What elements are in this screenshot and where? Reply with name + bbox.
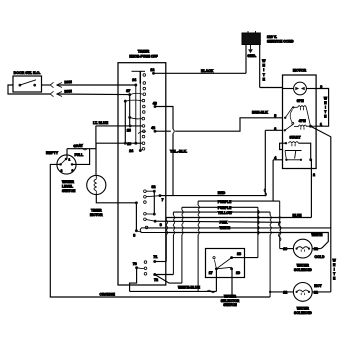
wire 17 riser down to white-blue [215, 269, 217, 292]
svg-text:SWITCH: SWITCH [223, 303, 237, 307]
svg-text:72: 72 [154, 278, 158, 282]
connector squiggle cold drop b [278, 233, 281, 241]
svg-text:I: I [334, 267, 335, 271]
connector squiggle motor3 [264, 188, 267, 196]
selector contact circle [213, 257, 215, 259]
connector chevron lower [50, 91, 53, 96]
timer box outline [118, 63, 166, 285]
svg-text:RED: RED [218, 191, 226, 195]
node hot lead junction [269, 291, 271, 293]
label GRAY [73, 144, 82, 147]
contact circle row f [142, 135, 145, 138]
timer mid bus 32 [153, 191, 155, 214]
node junction riser gray [124, 142, 127, 145]
svg-text:17: 17 [209, 271, 213, 275]
svg-text:71: 71 [153, 255, 157, 259]
start bracket outboard loop [280, 143, 286, 149]
blade interior b [125, 99, 142, 102]
contact circle bot c [144, 273, 147, 276]
node pink right junction [279, 221, 281, 223]
water level switch circle [57, 155, 76, 174]
svg-text:TIMER: TIMER [91, 208, 102, 212]
timer bus 26 vertical [135, 85, 137, 143]
wire BRN upper to timer [57, 84, 136, 86]
label LT. BLUE [93, 121, 111, 124]
wire empty terminal 2 to orange [50, 164, 270, 297]
contact circle row g [142, 142, 145, 145]
node mid bus bottom dot [153, 213, 156, 216]
svg-text:70: 70 [133, 262, 137, 266]
arrow upper BRN wire [57, 83, 62, 88]
wire 18 to purple2 riser [232, 257, 258, 259]
wire door switch left loop [8, 85, 51, 94]
ground stub wire [250, 45, 252, 50]
centrifugal blade [295, 151, 296, 159]
svg-text:9: 9 [160, 223, 162, 227]
wire pink dot to contact [146, 219, 155, 221]
terminal 8 dot [135, 229, 138, 232]
svg-text:6PM: 6PM [297, 99, 304, 103]
svg-text:YELLOW: YELLOW [218, 211, 233, 215]
wire junction to terminal 1 [307, 125, 317, 127]
svg-text:START: START [289, 135, 301, 139]
label BRN upper [64, 81, 71, 84]
service cord plug 120V [242, 33, 260, 45]
label FULL [74, 153, 83, 156]
door switch blade [20, 80, 36, 85]
svg-text:WATER: WATER [297, 263, 310, 267]
node LT BLUE junction dot [129, 124, 132, 127]
wire BLACK to timer 12 [154, 72, 247, 74]
connector squiggle gray [79, 147, 87, 150]
svg-text:22: 22 [283, 291, 287, 295]
terminal 71 dot [153, 260, 156, 263]
svg-text:GND.: GND. [247, 54, 256, 58]
wire BLUE [166, 217, 311, 219]
svg-text:37: 37 [126, 89, 130, 93]
node start coil left dot [285, 142, 287, 144]
svg-text:EMPTY: EMPTY [46, 151, 59, 155]
svg-text:SOLENOID: SOLENOID [294, 268, 312, 272]
label 21 cold [314, 247, 319, 250]
svg-text:W: W [333, 259, 337, 263]
contact circle row c [142, 99, 145, 102]
svg-text:43: 43 [153, 102, 157, 106]
wire hot 22 lead [270, 291, 293, 293]
wire full terminal 3 [72, 149, 90, 165]
label PURPLE 2 [217, 206, 230, 209]
terminal 4 dot [285, 159, 287, 161]
svg-text:WATER: WATER [62, 180, 75, 184]
wire motor terminal 2 down [310, 160, 312, 218]
svg-text:2: 2 [313, 173, 315, 177]
wire 70 down and left to white-blue [130, 268, 137, 292]
svg-text:T: T [333, 272, 335, 276]
svg-text:WHITE-BLUE: WHITE-BLUE [178, 286, 201, 290]
contact circle row a [143, 87, 146, 90]
terminal 12 dot [152, 72, 155, 75]
svg-text:43: 43 [151, 126, 155, 130]
svg-text:19: 19 [236, 271, 240, 275]
wire YEL-BLK vertical continue [172, 133, 174, 195]
motor protector contacts [295, 87, 299, 91]
contact circle row d [143, 111, 146, 114]
svg-text:I: I [263, 68, 264, 72]
hot solenoid circle [293, 283, 312, 302]
blade 8 to hairpin [136, 231, 141, 233]
terminal 17 dot [128, 93, 131, 96]
motor protector wire left [283, 88, 294, 90]
wire cold 20 lead [280, 248, 294, 250]
svg-text:21: 21 [314, 247, 318, 251]
label WHITE vertical motor right [324, 97, 328, 118]
water selector switch box [206, 249, 245, 278]
wire hot 21 lead [312, 291, 331, 293]
terminal 5 dot inside motor [284, 117, 286, 119]
svg-text:PURPLE: PURPLE [218, 206, 232, 210]
label WATER SELECTOR SWITCH [224, 295, 235, 298]
svg-text:MOTOR: MOTOR [90, 213, 103, 217]
timer cam T-bar [132, 70, 146, 72]
centrifugal contact dot [300, 159, 302, 161]
hot solenoid coil [296, 291, 298, 293]
svg-text:COLD: COLD [315, 255, 325, 259]
svg-text:PURPLE: PURPLE [218, 200, 232, 204]
wire 72 diagonal to purple2 riser [155, 275, 182, 284]
wire start coil to centrifugal [299, 143, 311, 160]
wire terminal 1 up gray [66, 149, 68, 159]
svg-text:12: 12 [150, 68, 154, 72]
svg-text:BLUE: BLUE [293, 213, 303, 217]
svg-text:PINK: PINK [220, 220, 228, 224]
label PURPLE 1 [217, 200, 230, 203]
wire PURPLE 2 [182, 206, 258, 208]
wire mid bus bottom to contact [146, 213, 154, 215]
wire motor terminal 4 out [273, 159, 282, 161]
contact circle row e [142, 125, 145, 128]
wire door switch right to connector [42, 84, 51, 86]
riser yellow to 72 [172, 212, 174, 215]
svg-text:24: 24 [132, 78, 136, 82]
ground arrow symbol [248, 49, 253, 53]
wire 32 to contact [146, 190, 154, 192]
timer interior bus 17 down [129, 95, 131, 126]
wire gray line inside timer [96, 142, 142, 144]
label BLUE [292, 214, 301, 217]
terminal 32 dot [153, 190, 156, 193]
wire white hairpin [140, 228, 165, 233]
contact circle mid d [144, 213, 147, 216]
svg-text:ORANGE: ORANGE [100, 293, 116, 297]
wire PINK [155, 221, 280, 222]
wire motor terminal 3 out [265, 129, 282, 131]
svg-text:20: 20 [283, 247, 287, 251]
wire 7 to contact [146, 196, 160, 197]
svg-text:MOTOR: MOTOR [293, 69, 307, 73]
terminal 19 dot [230, 267, 233, 270]
svg-text:24: 24 [129, 149, 133, 153]
svg-text:FULL: FULL [75, 153, 84, 157]
svg-text:32: 32 [152, 185, 156, 189]
svg-text:DOOR SW. N.O.: DOOR SW. N.O. [14, 71, 41, 75]
terminal 24 lower dot [139, 149, 142, 152]
wire purple1 down to cold solenoid [279, 201, 281, 226]
node 6PM left dot [292, 106, 294, 108]
svg-text:WATER: WATER [297, 307, 310, 311]
terminal 15 label [126, 128, 131, 132]
svg-text:1: 1 [69, 158, 71, 162]
wire yellow riser down to hot and orange [269, 212, 271, 215]
connector chevron upper [50, 82, 53, 87]
contact circle mid c [144, 201, 147, 204]
wire EXTRA white to cold 21 [165, 233, 328, 249]
contact circle cam upper [143, 74, 146, 77]
centrifugal bottom line [286, 159, 301, 161]
label 21 hot [314, 291, 319, 294]
label 22 [283, 291, 288, 294]
wire 19 riser down to orange [231, 269, 233, 297]
svg-text:4PM: 4PM [299, 119, 306, 123]
contact circle 43 lower [143, 130, 146, 133]
node 26 dot on gray wire [134, 142, 137, 145]
door switch contact left [19, 84, 22, 87]
wire motor 3 drop [264, 130, 266, 195]
svg-text:TIMER: TIMER [138, 50, 150, 54]
door switch box [13, 76, 42, 92]
node blue junction [279, 216, 281, 218]
contact circle mid a [144, 190, 147, 193]
wire terminal 3 to 4PM [285, 125, 293, 131]
wire PURPLE 1 [198, 200, 280, 202]
label PINK [219, 221, 228, 224]
label BLACK [201, 69, 213, 72]
contact circle 43 upper [143, 105, 146, 108]
wire 72 to yellow riser [155, 274, 174, 276]
svg-text:LT. BLUE: LT. BLUE [93, 121, 109, 125]
node start switch dot [309, 158, 312, 161]
contact circle row h [142, 148, 145, 151]
label WHITE-BLUE [178, 286, 201, 289]
cold solenoid circle [293, 239, 312, 258]
svg-text:15: 15 [127, 128, 131, 132]
selector blade 17 to 18 [216, 258, 231, 269]
svg-text:21: 21 [314, 291, 318, 295]
timer motor bus to terminal 8 [135, 203, 137, 231]
wire white to motor [260, 87, 283, 89]
terminal 70 dot [135, 266, 138, 269]
svg-text:8: 8 [133, 234, 135, 238]
wire LT BLUE into contact 15 [96, 125, 143, 127]
svg-text:T: T [324, 110, 326, 114]
blade 43 lower [138, 131, 146, 133]
svg-text:WHITE: WHITE [312, 233, 324, 237]
connector squiggle on white-blue [207, 290, 215, 293]
terminal 17 dot [215, 267, 218, 270]
wire white bracket 9 to 1 [316, 89, 329, 127]
node interior dot b [124, 100, 127, 103]
speed switch arc [290, 110, 292, 123]
svg-text:1: 1 [320, 122, 322, 126]
svg-text:SERVICE CORD: SERVICE CORD [267, 39, 294, 43]
svg-text:KNOB-PUSH OFF: KNOB-PUSH OFF [129, 55, 157, 59]
svg-text:BRN: BRN [64, 89, 72, 93]
svg-text:W: W [324, 97, 328, 101]
wire cold 21 lead [312, 248, 320, 250]
svg-text:7: 7 [162, 198, 164, 202]
water level terminal 2 dot [59, 163, 62, 166]
svg-text:I: I [325, 105, 326, 109]
svg-text:YEL.-BLK.: YEL.-BLK. [170, 149, 187, 153]
wire white lead from plug down [259, 45, 261, 88]
label 20 [283, 247, 288, 250]
door switch contact right [33, 84, 36, 87]
wire 71 to blue riser [155, 261, 167, 263]
svg-text:5: 5 [274, 114, 276, 118]
terminal 43 upper dot [154, 105, 157, 108]
svg-text:BRN-BLK: BRN-BLK [252, 111, 268, 115]
blade 17 to contact [130, 93, 143, 94]
svg-text:WHITE: WHITE [220, 226, 231, 230]
wire timer motor bottom to timer box [96, 195, 136, 203]
svg-text:SWITCH: SWITCH [62, 189, 76, 193]
wire black lead down from plug [245, 45, 247, 74]
motor box outline [283, 75, 317, 169]
centrifugal left diagonal [285, 151, 286, 160]
label YEL-BLK [170, 150, 190, 153]
wire timer motor top riser [95, 143, 97, 175]
blade 70 to contact [137, 267, 145, 270]
timer cam stem [139, 71, 141, 83]
svg-text:HOT: HOT [314, 284, 322, 288]
riser purple1 to white-blue [197, 201, 199, 205]
wire white diagonal down right [311, 126, 331, 228]
svg-text:SOLENOID: SOLENOID [294, 311, 312, 315]
wire YELLOW [173, 211, 270, 213]
label WHITE vertical service [262, 59, 266, 81]
svg-text:GRAY: GRAY [73, 143, 83, 148]
terminal 7 dot RED [159, 194, 162, 197]
node motor windings junction dot [309, 125, 312, 128]
svg-text:BLACK: BLACK [201, 69, 214, 73]
selector stub 17 contact [214, 260, 216, 269]
label YELLOW [217, 211, 230, 214]
blade interior a [130, 117, 143, 119]
terminal 72 dot [153, 273, 156, 276]
service cord plug prongs [247, 31, 249, 34]
centrifugal switch top bar [285, 150, 302, 152]
svg-text:BRN: BRN [64, 80, 72, 84]
svg-text:2: 2 [61, 168, 63, 172]
selector blade 17 to 19 [216, 267, 231, 269]
speed switch contact circle [292, 122, 294, 124]
terminal 43 lower dot [154, 130, 157, 133]
label RED [217, 191, 224, 194]
wire 43 lower to motor 5 BRN-BLK [155, 130, 171, 132]
label BRN lower [64, 90, 71, 93]
motor protector circle [294, 82, 307, 95]
svg-text:WATER: WATER [224, 294, 237, 298]
speed switch blade up [285, 107, 292, 118]
winding 4PM [298, 125, 306, 127]
arrow lower BRN wire [57, 92, 62, 97]
start winding [289, 142, 299, 144]
wire lt blue left end down [95, 126, 97, 143]
water level terminal 3 dot [71, 163, 74, 166]
node BRN bus junction [134, 84, 137, 87]
contact circle mid f [145, 226, 148, 229]
label WHITE small above cold [311, 233, 322, 236]
connector squiggle cold drop a [278, 223, 281, 231]
terminal 18 dot [230, 256, 233, 259]
contact circle interior a [142, 117, 145, 120]
wire gray step up [95, 143, 97, 149]
wire 43 upper exit right then down YEL-BLK [155, 107, 173, 130]
timer cam stem bus [139, 84, 141, 151]
contact circle bot a [144, 261, 147, 264]
contact circle bot b [144, 267, 147, 270]
terminal 3 dot inside motor [284, 129, 286, 131]
motor protector wire right [306, 88, 316, 90]
label WHITE bundle [219, 226, 230, 229]
contact circle cam lower [143, 82, 146, 85]
svg-text:LEVEL: LEVEL [62, 185, 73, 189]
cold solenoid coil [296, 248, 298, 250]
node pink dot [154, 220, 157, 223]
svg-text:18: 18 [237, 252, 241, 256]
label ORANGE [99, 293, 113, 296]
riser purple2 to 72 diagonal [181, 207, 183, 210]
timer motor coil [95, 175, 97, 179]
label WHITE vertical right [332, 259, 336, 280]
hop 43 wire over YEL-BLK [173, 129, 174, 133]
wire motor 4 drop [272, 160, 274, 201]
svg-text:SELECTOR: SELECTOR [221, 299, 240, 303]
timer motor circle [87, 175, 106, 194]
timer interior bus b down [124, 101, 126, 143]
blade 24 to contact [140, 150, 142, 151]
wire WHITE-BLUE horizontal [130, 290, 217, 292]
contact circle mid b [144, 196, 147, 199]
wire BRN lower to timer [57, 93, 129, 96]
node interior dot a [128, 116, 131, 119]
contact circle row b [143, 93, 146, 96]
winding 6PM [298, 106, 306, 108]
wire 6PM right diagonal [306, 107, 310, 126]
wire gray horizontal [67, 148, 96, 150]
wire RED [160, 195, 265, 197]
riser blue to 71 [165, 218, 167, 221]
water level blade 1 to 2 [61, 159, 66, 164]
contact circle mid e [144, 218, 147, 221]
water level terminal 1 dot [65, 158, 68, 161]
node timer motor wire junction [135, 201, 138, 204]
wire WHITE bundle [148, 228, 331, 292]
